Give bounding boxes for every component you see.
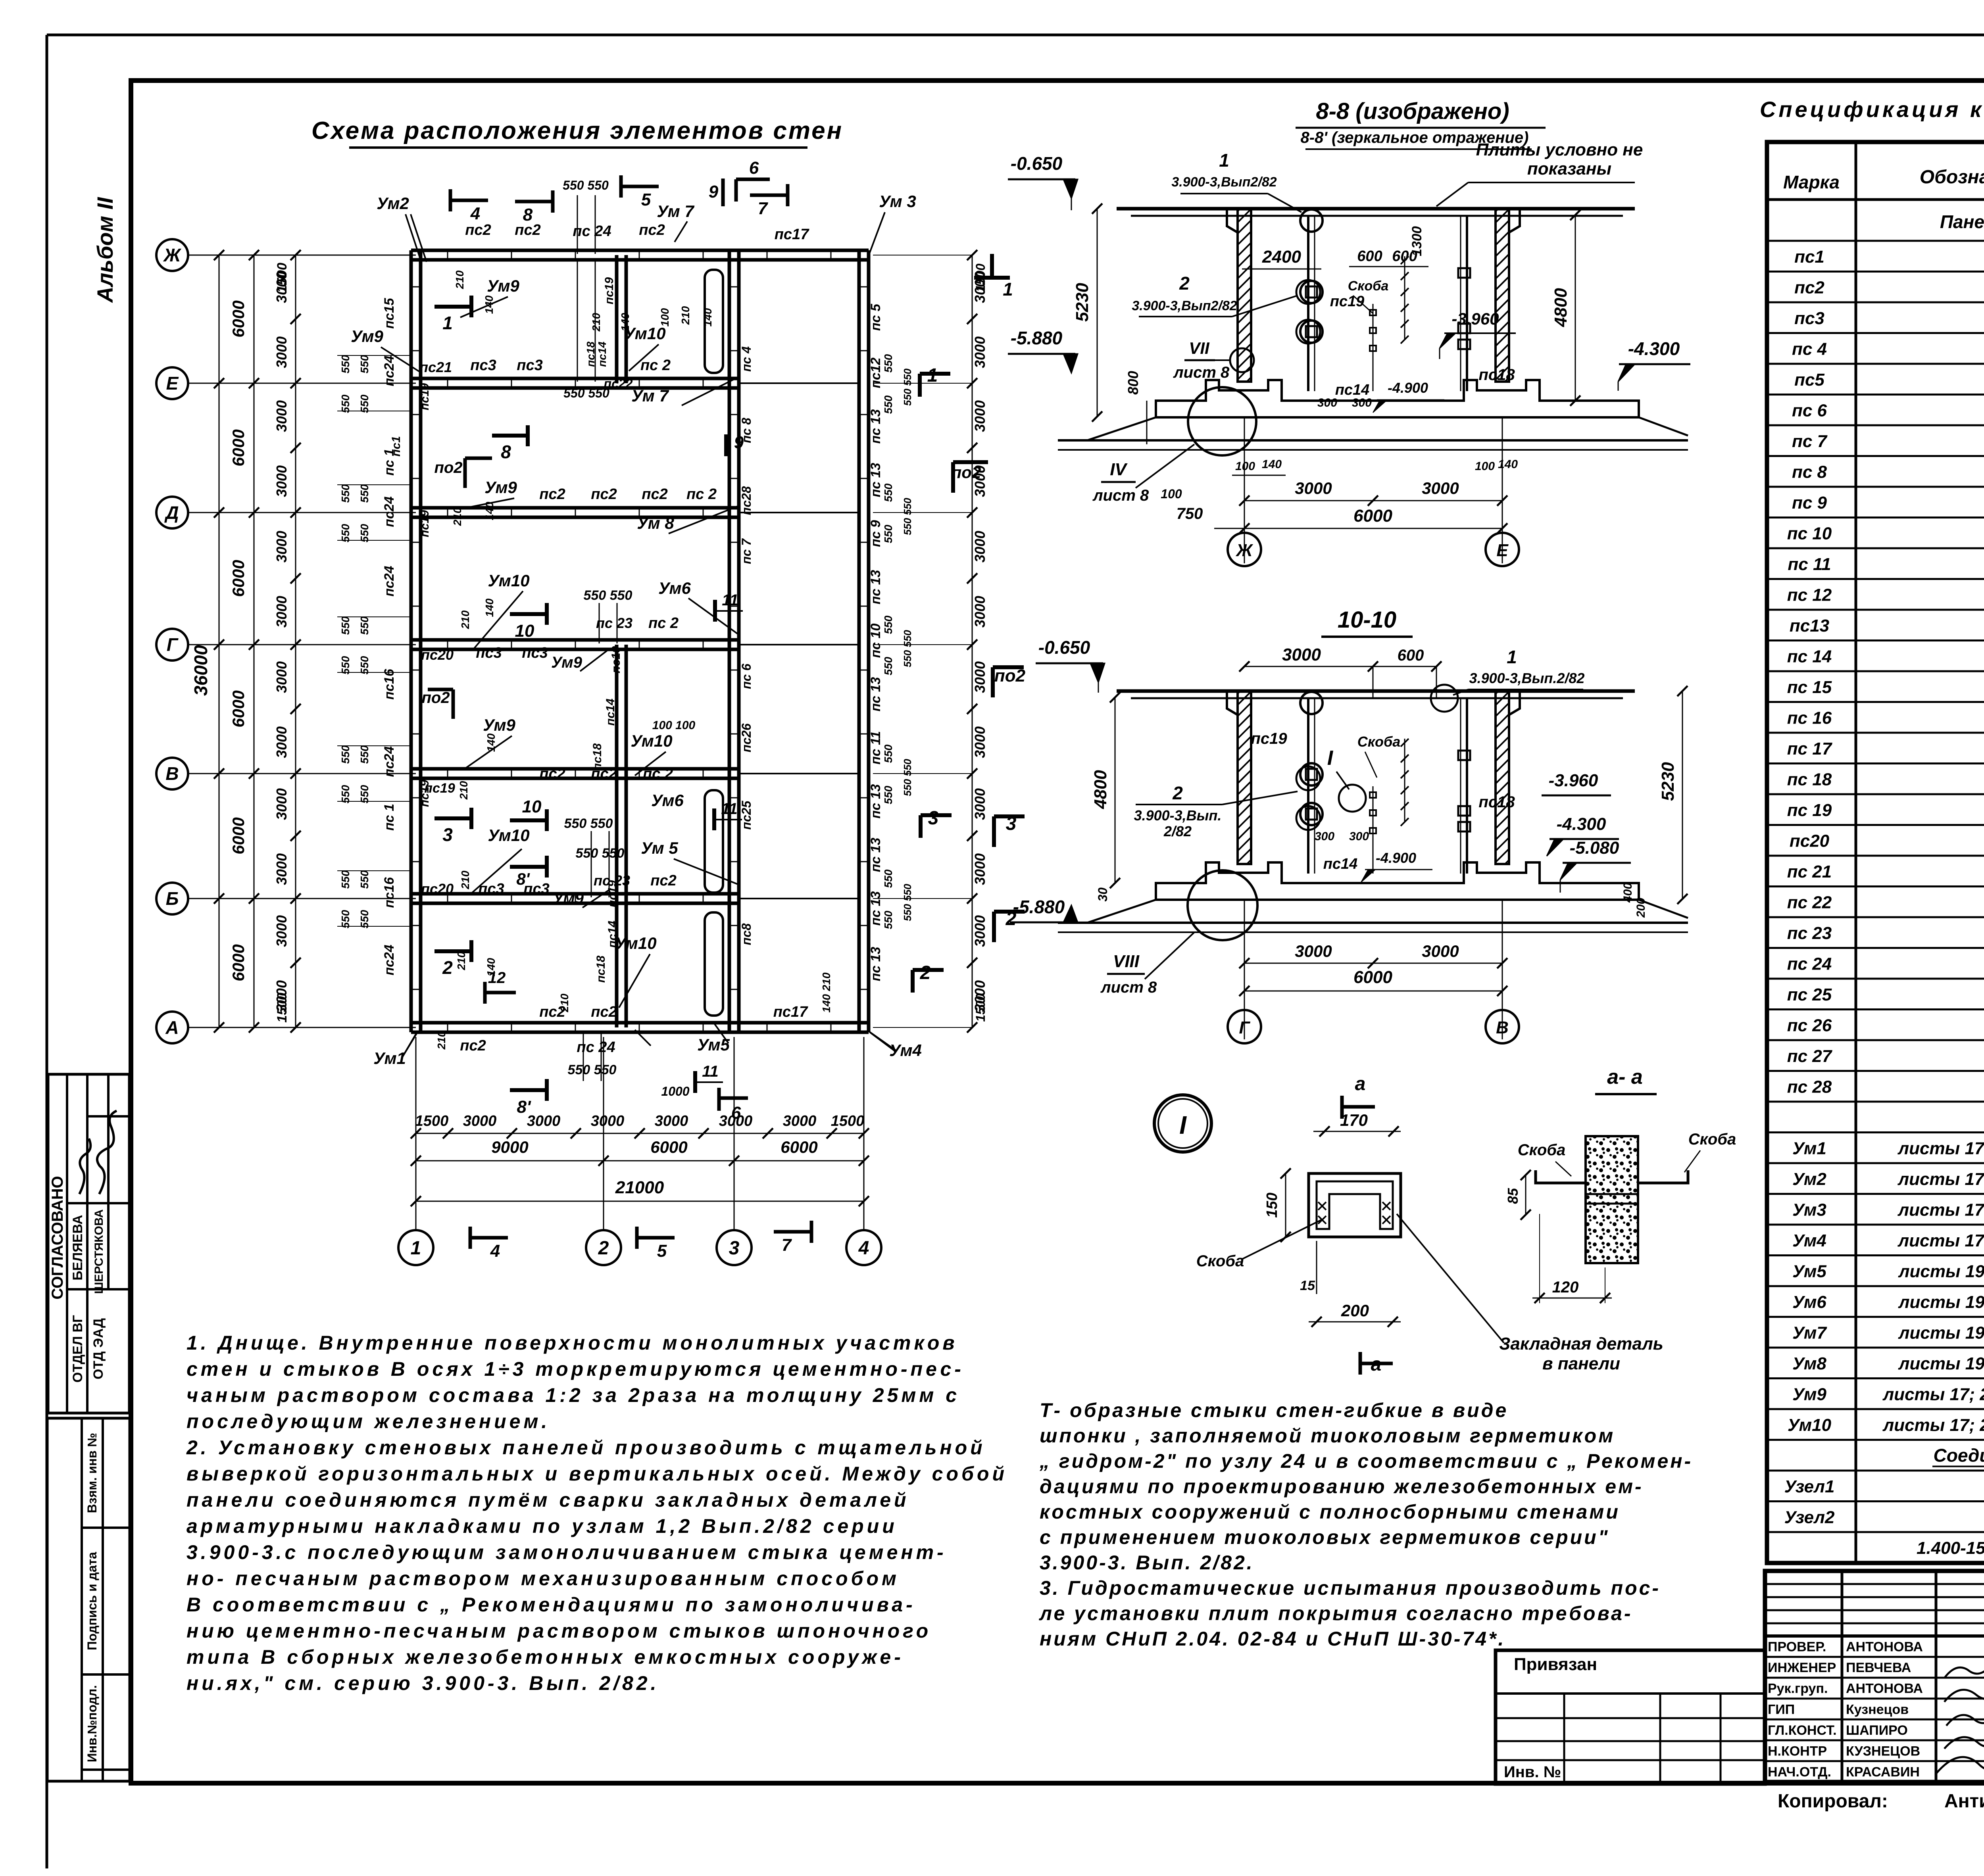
svg-text:3000: 3000 <box>527 1113 561 1129</box>
svg-text:ни.ях," см. серию 3.900-3. В: ни.ях," см. серию 3.900-3. Вып. 2/82. <box>186 1672 659 1694</box>
left margin stamp box B (инвентарные) <box>47 1418 130 1781</box>
svg-text:3000: 3000 <box>591 1113 625 1129</box>
svg-text:Д: Д <box>164 502 179 523</box>
svg-text:100: 100 <box>1161 487 1182 501</box>
axis circle Ж <box>156 239 188 271</box>
svg-text:550: 550 <box>358 616 371 635</box>
svg-text:пс14: пс14 <box>596 342 608 367</box>
svg-text:пс26: пс26 <box>739 723 754 752</box>
svg-text:85: 85 <box>1505 1188 1521 1204</box>
svg-text:ПРОВЕР.: ПРОВЕР. <box>1768 1640 1826 1655</box>
svg-text:Ум 8: Ум 8 <box>637 514 674 532</box>
svg-text:пс24: пс24 <box>382 746 397 777</box>
svg-text:100 100: 100 100 <box>652 719 696 732</box>
plan interior wall (axis Г) <box>411 638 739 642</box>
svg-text:140: 140 <box>483 501 496 520</box>
axis circle А <box>156 1012 188 1043</box>
plan mid joint wall x=1566 <box>615 255 619 383</box>
svg-text:550: 550 <box>358 355 371 373</box>
svg-text:Закладная деталь: Закладная деталь <box>1499 1334 1663 1354</box>
svg-text:Ум9: Ум9 <box>553 890 584 907</box>
dim chain 21000 <box>416 1201 864 1202</box>
svg-text:3000: 3000 <box>463 1113 497 1129</box>
svg-text:пс2: пс2 <box>539 766 565 782</box>
svg-text:150: 150 <box>1264 1192 1280 1217</box>
svg-text:3000: 3000 <box>273 661 290 693</box>
svg-text:ШАПИРО: ШАПИРО <box>1846 1723 1908 1738</box>
svg-text:Марка: Марка <box>1783 172 1840 192</box>
svg-text:ОТДЕЛ ВГ: ОТДЕЛ ВГ <box>70 1315 85 1383</box>
svg-text:21000: 21000 <box>615 1178 664 1197</box>
svg-text:пс24: пс24 <box>382 355 397 386</box>
svg-text:пс 14: пс 14 <box>1787 647 1832 666</box>
svg-text:1: 1 <box>1507 647 1517 667</box>
axis circle 3 <box>717 1230 752 1265</box>
svg-text:пс 4: пс 4 <box>1792 340 1827 359</box>
svg-text:пс 7: пс 7 <box>739 538 754 564</box>
svg-text:Т- образные стыки стен-гибкие: Т- образные стыки стен-гибкие в виде <box>1040 1399 1508 1421</box>
svg-text:пс 23: пс 23 <box>1787 924 1832 943</box>
svg-text:3000: 3000 <box>273 336 290 368</box>
svg-text:3.900-3.с последующим замоноли: 3.900-3.с последующим замоноличиванием с… <box>186 1541 947 1563</box>
svg-text:пс 9: пс 9 <box>868 520 883 547</box>
svg-text:пс13: пс13 <box>1790 616 1829 636</box>
axis circle Б <box>156 883 188 914</box>
svg-text:Скоба: Скоба <box>1518 1141 1566 1159</box>
svg-text:3. Гидростатические испытания: 3. Гидростатические испытания производит… <box>1040 1577 1661 1599</box>
svg-text:Ум 7: Ум 7 <box>657 202 694 221</box>
svg-text:9: 9 <box>709 182 719 202</box>
svg-text:550: 550 <box>882 354 894 373</box>
svg-text:300: 300 <box>1315 830 1334 843</box>
svg-text:лист 8: лист 8 <box>1092 487 1149 504</box>
svg-text:пс 27: пс 27 <box>1787 1046 1833 1066</box>
svg-text:АНТОНОВА: АНТОНОВА <box>1846 1681 1923 1696</box>
svg-text:Схема расположения элементов с: Схема расположения элементов стен <box>311 117 843 144</box>
plan thin wall segment right of axis 3 (Б) <box>739 898 859 899</box>
svg-text:пс2: пс2 <box>639 222 665 238</box>
svg-text:Ум4: Ум4 <box>1792 1231 1826 1250</box>
svg-text:3000: 3000 <box>273 465 290 497</box>
svg-text:по2: по2 <box>434 459 462 476</box>
svg-text:9: 9 <box>734 433 744 452</box>
svg-text:Ум2: Ум2 <box>377 194 409 213</box>
svg-text:-4.300: -4.300 <box>1557 814 1606 834</box>
svg-text:пс 2: пс 2 <box>648 615 679 632</box>
plan interior wall (axis Б) <box>411 892 739 896</box>
svg-text:Копировал:: Копировал: <box>1778 1791 1888 1812</box>
svg-text:Ум10: Ум10 <box>488 571 529 590</box>
sheet outer border top <box>47 34 1984 36</box>
plan mid joint wall x=1566 <box>615 774 619 899</box>
svg-text:2: 2 <box>1179 273 1190 294</box>
svg-text:3.900-3,Вып2/82: 3.900-3,Вып2/82 <box>1132 298 1237 313</box>
svg-text:пс 13: пс 13 <box>868 570 883 604</box>
dim chain 36000 <box>219 255 220 1027</box>
svg-text:800: 800 <box>1125 371 1141 395</box>
svg-text:пс 11: пс 11 <box>868 731 883 764</box>
svg-text:с применением тиоколовых герме: с применением тиоколовых герметиков сери… <box>1040 1526 1609 1548</box>
svg-text:3: 3 <box>928 808 939 829</box>
svg-text:140: 140 <box>483 598 496 617</box>
svg-text:170: 170 <box>1340 1111 1368 1129</box>
svg-text:а- а: а- а <box>1607 1066 1643 1089</box>
svg-text:Ум9: Ум9 <box>483 716 515 734</box>
svg-text:3000: 3000 <box>972 853 988 885</box>
svg-text:листы 19÷22: листы 19÷22 <box>1898 1354 1984 1373</box>
svg-text:3000: 3000 <box>273 788 290 820</box>
svg-text:пс 16: пс 16 <box>1787 709 1832 728</box>
plan narrow cell (monolithic joint) <box>705 912 723 1016</box>
svg-text:пс3: пс3 <box>522 645 548 661</box>
svg-text:VIII: VIII <box>1113 952 1140 971</box>
svg-text:костных сооружений с полносбо: костных сооружений с полносборными стена… <box>1040 1501 1620 1523</box>
plan thin wall segment right of axis 3 (Е) <box>739 382 859 384</box>
svg-text:показаны: показаны <box>1527 159 1611 179</box>
svg-text:листы 17; 18: листы 17; 18 <box>1897 1231 1984 1250</box>
floor slab <box>1156 380 1639 417</box>
svg-text:1500: 1500 <box>275 993 290 1023</box>
svg-text:пс17: пс17 <box>775 226 809 243</box>
svg-text:550: 550 <box>339 484 352 503</box>
svg-text:последующим железнением.: последующим железнением. <box>186 1410 550 1432</box>
svg-text:ГИП: ГИП <box>1768 1702 1795 1717</box>
svg-text:3000: 3000 <box>273 400 290 432</box>
svg-text:10-10: 10-10 <box>1338 607 1396 633</box>
svg-text:140: 140 <box>1498 458 1518 471</box>
svg-text:пс 10: пс 10 <box>1787 524 1832 543</box>
svg-text:Ум9: Ум9 <box>351 327 383 346</box>
section mark 1 <box>434 305 471 309</box>
svg-text:36000: 36000 <box>190 645 211 696</box>
signature squiggle 2 <box>97 1111 117 1194</box>
svg-text:3000: 3000 <box>972 915 988 947</box>
svg-text:3000: 3000 <box>972 336 988 368</box>
svg-text:11: 11 <box>722 591 738 609</box>
floor slab <box>1156 862 1639 900</box>
svg-text:Скоба: Скоба <box>1348 278 1389 294</box>
svg-text:Ум6: Ум6 <box>1792 1292 1826 1312</box>
axis circle Е section 8-8 <box>1486 533 1519 566</box>
svg-text:550 550: 550 550 <box>902 630 913 667</box>
svg-text:пс 13: пс 13 <box>868 784 883 818</box>
svg-text:6000: 6000 <box>229 560 248 597</box>
svg-text:3000: 3000 <box>1295 479 1332 497</box>
svg-text:2: 2 <box>442 957 453 978</box>
привязан grid <box>1496 1650 1765 1784</box>
svg-text:пс19: пс19 <box>1251 730 1287 747</box>
svg-text:3000: 3000 <box>1295 942 1332 960</box>
svg-text:Е: Е <box>1496 541 1509 560</box>
svg-text:5: 5 <box>641 190 651 209</box>
svg-text:пс20: пс20 <box>1790 831 1830 851</box>
svg-text:пс19: пс19 <box>609 646 623 674</box>
mark 12 left <box>483 982 487 1004</box>
svg-text:пс19: пс19 <box>418 780 431 807</box>
plan bottom wall (axis А) <box>411 1021 869 1025</box>
svg-text:550: 550 <box>339 870 352 889</box>
svg-text:3000: 3000 <box>1422 479 1459 497</box>
svg-text:300: 300 <box>1352 396 1372 409</box>
svg-text:-5.080: -5.080 <box>1570 838 1619 858</box>
panel joint ticks on plan walls <box>447 249 448 261</box>
svg-text:пс8: пс8 <box>739 923 754 945</box>
svg-text:I: I <box>1327 747 1334 770</box>
svg-text:140: 140 <box>485 733 497 752</box>
svg-text:НАЧ.ОТД.: НАЧ.ОТД. <box>1768 1765 1831 1780</box>
svg-text:600: 600 <box>1357 248 1382 265</box>
svg-text:пс 24: пс 24 <box>1787 954 1832 974</box>
svg-text:пс2: пс2 <box>591 486 617 503</box>
svg-text:3.900-3,Вып.2/82: 3.900-3,Вып.2/82 <box>1469 670 1585 686</box>
svg-text:пс2: пс2 <box>460 1037 486 1054</box>
plan interior wall (axis В) <box>411 767 739 771</box>
svg-text:пс2: пс2 <box>1794 278 1824 298</box>
svg-text:1.400-15. В1.810: 1.400-15. В1.810 <box>1917 1538 1984 1558</box>
svg-text:Ж: Ж <box>163 245 182 265</box>
svg-text:600: 600 <box>1398 647 1424 664</box>
svg-text:-3.960: -3.960 <box>1549 771 1598 790</box>
svg-text:пс12: пс12 <box>868 357 883 388</box>
svg-text:пс15: пс15 <box>382 298 397 329</box>
section mark 7 top <box>750 194 788 197</box>
svg-text:1500: 1500 <box>831 1113 865 1129</box>
svg-text:ОТД ЭАД: ОТД ЭАД <box>91 1318 106 1379</box>
svg-text:в панели: в панели <box>1542 1354 1620 1373</box>
svg-text:200: 200 <box>1341 1301 1369 1320</box>
svg-text:пс 2: пс 2 <box>640 357 671 374</box>
svg-text:3000: 3000 <box>655 1113 688 1129</box>
svg-text:550 550: 550 550 <box>902 758 913 796</box>
svg-text:8-8 (изображено): 8-8 (изображено) <box>1316 98 1509 124</box>
svg-text:пс14: пс14 <box>606 921 619 948</box>
svg-text:550: 550 <box>882 744 894 763</box>
svg-text:550: 550 <box>339 785 352 803</box>
svg-text:пс 25: пс 25 <box>1787 985 1832 1004</box>
svg-text:550 550: 550 550 <box>902 368 913 406</box>
svg-text:3: 3 <box>729 1238 740 1259</box>
svg-text:6000: 6000 <box>650 1138 687 1156</box>
svg-text:В: В <box>165 763 179 784</box>
svg-text:пс 13: пс 13 <box>868 409 883 444</box>
svg-text:210: 210 <box>459 610 471 629</box>
svg-text:Ум9: Ум9 <box>487 277 519 295</box>
svg-text:12: 12 <box>488 969 506 987</box>
svg-text:140 210: 140 210 <box>820 972 832 1013</box>
svg-text:550 550: 550 550 <box>563 178 609 192</box>
svg-text:3000: 3000 <box>972 726 988 758</box>
svg-text:1000: 1000 <box>661 1084 689 1098</box>
section mark 8-prime row В-Б <box>510 865 547 869</box>
section mark 5 top <box>621 185 659 188</box>
svg-text:Антипова: Антипова <box>1944 1791 1984 1812</box>
axis circle В section 10-10 <box>1486 1010 1519 1043</box>
svg-text:пс 11: пс 11 <box>1788 555 1831 574</box>
svg-text:9000: 9000 <box>491 1138 528 1156</box>
svg-text:400: 400 <box>1621 883 1634 903</box>
axis circle Ж section 8-8 <box>1228 533 1261 566</box>
svg-text:550 550: 550 550 <box>902 883 913 921</box>
svg-text:пс3: пс3 <box>470 357 496 374</box>
svg-text:пс 28: пс 28 <box>1787 1077 1832 1097</box>
svg-text:Привязан: Привязан <box>1514 1655 1597 1674</box>
axis circle Е <box>156 367 188 399</box>
svg-text:11: 11 <box>702 1063 719 1080</box>
svg-text:пс2: пс2 <box>591 1004 617 1020</box>
axis circle 1 <box>398 1230 433 1265</box>
svg-text:Подпись и дата: Подпись и дата <box>85 1552 99 1650</box>
svg-text:550 550: 550 550 <box>576 846 625 861</box>
plan title underline <box>349 146 807 149</box>
svg-text:6000: 6000 <box>229 690 248 727</box>
svg-text:пс2: пс2 <box>642 486 667 503</box>
svg-text:пс24: пс24 <box>382 945 397 975</box>
svg-text:550: 550 <box>339 616 352 635</box>
svg-text:пс2: пс2 <box>539 486 565 503</box>
plan interior wall (axis Д) <box>411 506 739 510</box>
svg-text:210: 210 <box>590 313 602 332</box>
section mark 3 <box>434 816 471 820</box>
svg-text:4: 4 <box>470 204 480 223</box>
svg-text:Ум1: Ум1 <box>1792 1139 1826 1158</box>
svg-text:550 550: 550 550 <box>568 1062 617 1077</box>
svg-text:2: 2 <box>598 1238 609 1259</box>
svg-text:пс20: пс20 <box>421 881 454 897</box>
svg-text:200: 200 <box>1634 898 1648 918</box>
svg-text:1: 1 <box>411 1238 421 1259</box>
axis line А <box>188 1027 416 1028</box>
axis circle Д <box>156 497 188 528</box>
svg-text:550: 550 <box>882 483 894 502</box>
leader lines plan corners <box>406 214 421 260</box>
dim chain 6000s <box>254 255 255 1027</box>
svg-text:2. Установку стеновых панелей: 2. Установку стеновых панелей производит… <box>186 1436 986 1459</box>
svg-text:100: 100 <box>659 308 671 326</box>
svg-text:4800: 4800 <box>1551 288 1571 327</box>
svg-text:Панели стеновые: Панели стеновые <box>1940 211 1984 232</box>
axis circle 4 <box>846 1230 881 1265</box>
svg-text:2400: 2400 <box>1262 247 1301 267</box>
svg-text:пс18: пс18 <box>1478 366 1515 384</box>
svg-text:пс21: пс21 <box>419 359 452 375</box>
svg-text:120: 120 <box>1552 1279 1579 1296</box>
svg-text:550: 550 <box>339 656 352 674</box>
svg-text:БЕЛЯЕВА: БЕЛЯЕВА <box>70 1215 85 1281</box>
svg-text:1: 1 <box>1219 150 1229 171</box>
svg-text:210: 210 <box>458 781 470 800</box>
svg-text:6000: 6000 <box>229 944 248 981</box>
svg-text:пс 17: пс 17 <box>1787 739 1833 758</box>
svg-text:-3.960: -3.960 <box>1451 309 1499 328</box>
svg-text:листы 17; 18: листы 17; 18 <box>1897 1139 1984 1158</box>
svg-text:-0.650: -0.650 <box>1011 153 1063 174</box>
plan thin wall segment right of axis 3 (Д) <box>739 512 859 513</box>
svg-text:-0.650: -0.650 <box>1038 637 1090 658</box>
svg-text:7: 7 <box>782 1235 792 1255</box>
svg-text:листы 17; 20; 22: листы 17; 20; 22 <box>1882 1385 1984 1404</box>
svg-text:листы 19÷22: листы 19÷22 <box>1898 1323 1984 1343</box>
svg-text:пс14: пс14 <box>604 699 617 726</box>
svg-text:Скоба: Скоба <box>1688 1131 1736 1148</box>
svg-text:лист 8: лист 8 <box>1173 364 1230 381</box>
svg-text:чаным раствором состава 1:2 за: чаным раствором состава 1:2 за 2раза на … <box>186 1384 960 1406</box>
svg-text:АНТОНОВА: АНТОНОВА <box>1846 1640 1923 1655</box>
svg-text:листы 17; 18: листы 17; 18 <box>1897 1200 1984 1220</box>
plan callout leader lines <box>411 214 427 262</box>
svg-text:5230: 5230 <box>1073 283 1092 322</box>
svg-text:пс 4: пс 4 <box>739 346 754 372</box>
axis line Б <box>188 898 416 899</box>
svg-text:листы 19÷22: листы 19÷22 <box>1898 1262 1984 1281</box>
svg-text:550: 550 <box>358 870 371 889</box>
section mark 8 top <box>515 200 553 204</box>
svg-text:листы 17; 20; 22: листы 17; 20; 22 <box>1882 1415 1984 1435</box>
svg-text:пс 7: пс 7 <box>1792 432 1828 451</box>
svg-text:Кузнецов: Кузнецов <box>1846 1702 1909 1717</box>
svg-text:1500: 1500 <box>415 1113 449 1129</box>
svg-text:ниям СНиП 2.04. 02-84 и СНиП Ш: ниям СНиП 2.04. 02-84 и СНиП Ш-30-74*. <box>1040 1628 1505 1650</box>
svg-text:550: 550 <box>882 615 894 634</box>
svg-text:пс19: пс19 <box>418 383 431 411</box>
svg-text:пс18: пс18 <box>1478 793 1515 811</box>
svg-text:пс5: пс5 <box>1794 370 1824 390</box>
svg-text:Узел1: Узел1 <box>1784 1477 1835 1496</box>
svg-text:Ум8: Ум8 <box>1792 1354 1826 1373</box>
svg-text:пс 2: пс 2 <box>686 486 717 503</box>
svg-text:550: 550 <box>339 355 352 373</box>
svg-text:Обозначение: Обозначение <box>1920 167 1984 188</box>
svg-text:1: 1 <box>442 313 453 333</box>
mark 9 row Ж-Е right <box>724 434 728 456</box>
svg-text:ИНЖЕНЕР: ИНЖЕНЕР <box>1768 1660 1836 1675</box>
svg-text:550: 550 <box>882 785 894 804</box>
svg-text:8: 8 <box>523 205 533 225</box>
svg-text:6000: 6000 <box>229 300 248 337</box>
svg-text:Спецификация к схеме располо: Спецификация к схеме расположения элемен… <box>1760 97 1984 122</box>
svg-text:550: 550 <box>882 869 894 888</box>
svg-text:Узел2: Узел2 <box>1784 1508 1835 1527</box>
svg-text:3000: 3000 <box>972 788 988 820</box>
svg-text:пс24: пс24 <box>382 566 397 597</box>
svg-text:пс18: пс18 <box>594 956 608 983</box>
svg-text:Ум9: Ум9 <box>551 654 583 671</box>
svg-text:пс 24: пс 24 <box>573 223 611 240</box>
svg-text:6000: 6000 <box>1353 506 1392 526</box>
section mark 8 row Е <box>492 434 528 438</box>
svg-text:550: 550 <box>358 745 371 764</box>
svg-text:пс 19: пс 19 <box>1787 801 1832 820</box>
svg-text:4: 4 <box>858 1238 869 1259</box>
svg-text:140: 140 <box>619 313 631 331</box>
plan interior wall (axis Е) <box>411 377 739 380</box>
axis circle В <box>156 758 188 789</box>
svg-text:550 550: 550 550 <box>563 386 609 400</box>
svg-text:550 550: 550 550 <box>902 497 913 535</box>
mark 6 bottom <box>717 1088 721 1111</box>
svg-text:ле установки плит покрытия со: ле установки плит покрытия согласно треб… <box>1039 1602 1633 1624</box>
svg-text:210: 210 <box>679 306 692 325</box>
svg-text:5: 5 <box>657 1241 667 1261</box>
svg-text:пс28: пс28 <box>739 486 754 515</box>
svg-text:пс 9: пс 9 <box>1792 493 1827 513</box>
mark 11 marks right <box>713 600 717 622</box>
plan mid joint wall x=1566 <box>615 645 619 774</box>
svg-text:100: 100 <box>1235 460 1255 473</box>
dim chain 3000s left <box>295 255 296 1027</box>
svg-text:-4.900: -4.900 <box>1376 850 1416 866</box>
section mark 8-prime bottom <box>510 1088 547 1092</box>
svg-text:пс16: пс16 <box>382 668 397 700</box>
